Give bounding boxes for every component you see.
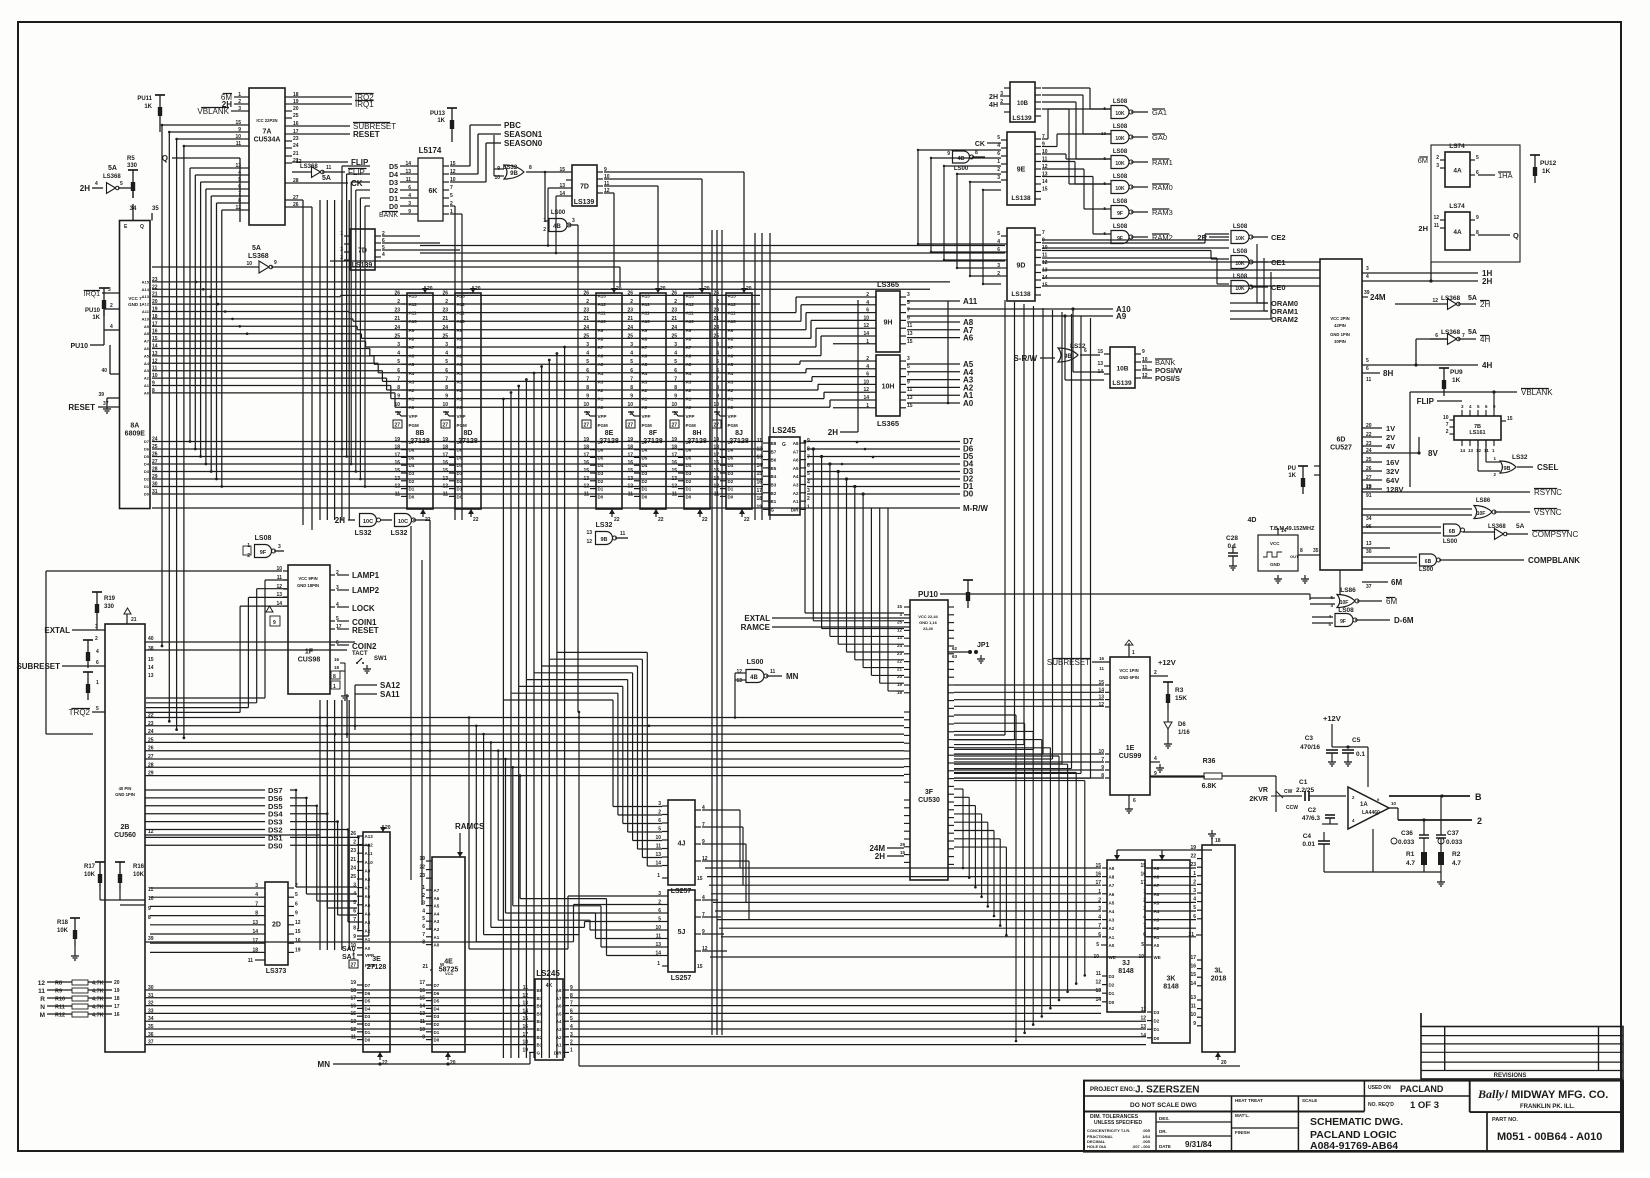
svg-text:7: 7 <box>450 185 453 191</box>
svg-text:9/31/84: 9/31/84 <box>1185 1140 1212 1149</box>
svg-text:D4: D4 <box>389 172 398 179</box>
svg-text:B7: B7 <box>771 449 777 454</box>
svg-text:C2: C2 <box>1308 807 1317 814</box>
svg-text:D1: D1 <box>144 484 150 489</box>
svg-text:LS32: LS32 <box>391 530 408 537</box>
svg-text:A3: A3 <box>686 379 692 384</box>
svg-text:16: 16 <box>419 988 425 994</box>
svg-text:A9: A9 <box>409 328 415 333</box>
svg-text:A9: A9 <box>457 328 463 333</box>
svg-text:16: 16 <box>713 460 719 466</box>
svg-text:2: 2 <box>445 299 448 305</box>
svg-text:RESET: RESET <box>353 130 380 139</box>
svg-text:A7: A7 <box>1109 883 1115 888</box>
svg-text:11: 11 <box>620 531 626 537</box>
svg-text:11: 11 <box>757 438 763 444</box>
svg-text:Bally: Bally <box>1477 1087 1505 1101</box>
svg-text:2: 2 <box>807 496 810 502</box>
svg-text:6: 6 <box>866 372 869 378</box>
svg-text:VSYNC: VSYNC <box>1534 508 1562 517</box>
svg-text:LS08: LS08 <box>1113 99 1128 105</box>
svg-text:9: 9 <box>1476 215 1479 221</box>
svg-text:12: 12 <box>1476 448 1482 453</box>
svg-text:D2: D2 <box>598 479 604 484</box>
svg-text:1K: 1K <box>92 315 100 321</box>
svg-text:A3: A3 <box>1109 918 1115 923</box>
svg-text:A1: A1 <box>457 397 463 402</box>
svg-text:2018: 2018 <box>1211 976 1227 983</box>
svg-text:12: 12 <box>863 387 869 393</box>
svg-text:D3: D3 <box>598 471 604 476</box>
svg-text:4A: 4A <box>1453 168 1462 175</box>
svg-text:DS0: DS0 <box>268 841 283 850</box>
svg-text:2: 2 <box>1193 879 1196 885</box>
svg-text:SUBRESET: SUBRESET <box>1047 658 1090 667</box>
svg-text:LS74: LS74 <box>1449 143 1465 150</box>
svg-text:VBLANK: VBLANK <box>197 107 229 116</box>
svg-text:D1: D1 <box>728 487 734 492</box>
svg-text:12: 12 <box>442 484 448 490</box>
svg-text:6: 6 <box>1084 348 1087 354</box>
svg-text:M-R/W: M-R/W <box>963 504 988 513</box>
svg-text:13: 13 <box>350 1019 356 1025</box>
svg-text:5A: 5A <box>322 175 331 182</box>
svg-text:2H: 2H <box>1480 300 1490 309</box>
svg-text:19: 19 <box>114 988 120 994</box>
svg-text:A12: A12 <box>728 302 737 307</box>
svg-text:14: 14 <box>1140 1033 1146 1039</box>
svg-text:3: 3 <box>674 342 677 348</box>
svg-text:POSI/S: POSI/S <box>1155 374 1180 383</box>
svg-text:D4: D4 <box>365 1006 371 1011</box>
svg-text:18: 18 <box>522 1040 528 1046</box>
svg-text:D0: D0 <box>434 1038 440 1043</box>
svg-text:9H: 9H <box>884 320 893 327</box>
svg-text:11: 11 <box>1096 971 1102 977</box>
svg-text:7B: 7B <box>1474 424 1481 430</box>
svg-text:CU530: CU530 <box>918 797 940 804</box>
svg-text:PBC: PBC <box>504 121 521 130</box>
svg-text:5: 5 <box>445 359 448 365</box>
svg-text:13: 13 <box>1366 541 1372 547</box>
svg-text:TACT: TACT <box>352 651 368 657</box>
svg-text:A9: A9 <box>144 324 150 329</box>
svg-text:PGM: PGM <box>598 423 609 428</box>
svg-text:A0: A0 <box>642 405 648 410</box>
svg-text:D3: D3 <box>642 471 648 476</box>
svg-text:3: 3 <box>353 883 356 889</box>
svg-text:9: 9 <box>586 394 589 400</box>
svg-text:13: 13 <box>1190 995 1196 1001</box>
svg-text:19: 19 <box>756 504 762 510</box>
svg-text:LS365: LS365 <box>877 419 899 428</box>
svg-text:D6: D6 <box>434 991 440 996</box>
svg-text:GND 6PIN: GND 6PIN <box>1119 675 1139 680</box>
svg-text:D3: D3 <box>144 469 150 474</box>
svg-text:A7: A7 <box>686 345 692 350</box>
svg-text:LS00: LS00 <box>747 659 764 666</box>
svg-text:A1: A1 <box>1109 935 1115 940</box>
svg-text:D3: D3 <box>457 471 463 476</box>
svg-text:14: 14 <box>863 331 869 337</box>
svg-text:D3: D3 <box>365 1014 371 1019</box>
svg-text:10F: 10F <box>1340 600 1349 606</box>
svg-text:/ MIDWAY MFG. CO.: / MIDWAY MFG. CO. <box>1505 1089 1608 1101</box>
svg-text:3: 3 <box>340 247 343 253</box>
svg-text:A7: A7 <box>457 345 463 350</box>
svg-text:14: 14 <box>756 463 762 469</box>
svg-text:VCC 22,44: VCC 22,44 <box>918 614 938 619</box>
svg-text:24: 24 <box>1366 448 1372 454</box>
svg-text:9: 9 <box>295 911 298 917</box>
svg-text:11: 11 <box>1484 448 1489 453</box>
svg-text:12: 12 <box>1140 1016 1146 1022</box>
svg-text:C28: C28 <box>1226 535 1238 542</box>
svg-text:13: 13 <box>276 592 282 598</box>
svg-text:1: 1 <box>543 218 546 224</box>
svg-text:B3: B3 <box>771 483 777 488</box>
svg-text:D0: D0 <box>728 494 734 499</box>
svg-text:A0: A0 <box>598 405 604 410</box>
svg-text:A12: A12 <box>457 302 466 307</box>
svg-text:21: 21 <box>713 316 719 322</box>
svg-text:D6: D6 <box>1178 722 1186 728</box>
svg-text:PGM: PGM <box>365 963 376 968</box>
svg-text:CUS99: CUS99 <box>1119 753 1142 760</box>
svg-text:RESET: RESET <box>68 403 95 412</box>
svg-text:LS257: LS257 <box>671 975 692 982</box>
svg-text:A7: A7 <box>556 996 562 1001</box>
svg-text:CE0: CE0 <box>1271 283 1286 292</box>
svg-text:2: 2 <box>1436 155 1439 161</box>
svg-text:26: 26 <box>442 290 448 296</box>
svg-text:5: 5 <box>586 359 589 365</box>
svg-text:D6: D6 <box>728 448 734 453</box>
svg-text:8: 8 <box>148 915 151 921</box>
svg-text:12: 12 <box>1432 298 1438 304</box>
svg-text:14: 14 <box>1281 528 1287 534</box>
svg-text:24: 24 <box>627 325 633 331</box>
svg-text:CONCENTRICITY T.I.R.: CONCENTRICITY T.I.R. <box>1087 1128 1130 1133</box>
svg-text:A1: A1 <box>409 397 415 402</box>
svg-text:Q: Q <box>162 154 168 163</box>
svg-text:26: 26 <box>627 290 633 296</box>
svg-text:4: 4 <box>1366 274 1369 280</box>
svg-text:RAMCS: RAMCS <box>455 822 485 831</box>
svg-text:14: 14 <box>863 395 869 401</box>
svg-text:A6: A6 <box>793 458 799 463</box>
svg-text:CK: CK <box>975 141 985 148</box>
svg-text:4: 4 <box>997 239 1000 245</box>
svg-text:11: 11 <box>907 323 913 329</box>
svg-text:A0: A0 <box>686 405 692 410</box>
svg-text:2: 2 <box>866 292 869 298</box>
svg-text:5: 5 <box>120 181 123 187</box>
svg-text:23: 23 <box>627 308 633 314</box>
svg-text:11: 11 <box>628 491 634 497</box>
svg-text:470/16: 470/16 <box>1300 744 1320 751</box>
svg-text:20: 20 <box>114 980 120 986</box>
svg-text:VCC: VCC <box>1270 541 1280 546</box>
svg-text:1/16: 1/16 <box>1178 730 1190 736</box>
svg-text:19: 19 <box>295 947 301 953</box>
svg-text:4: 4 <box>95 181 98 187</box>
svg-text:A12: A12 <box>642 302 651 307</box>
svg-text:12: 12 <box>38 980 46 987</box>
svg-text:5A: 5A <box>252 245 261 252</box>
svg-text:17: 17 <box>756 488 762 494</box>
svg-text:13: 13 <box>1140 1024 1146 1030</box>
svg-text:2V: 2V <box>1386 433 1395 442</box>
svg-text:6: 6 <box>997 247 1000 253</box>
svg-text:A14: A14 <box>142 287 150 292</box>
svg-text:8: 8 <box>422 940 425 946</box>
svg-text:9: 9 <box>1193 1021 1196 1027</box>
svg-text:37: 37 <box>103 401 109 407</box>
svg-text:COIN2: COIN2 <box>352 642 377 651</box>
svg-text:MN: MN <box>318 1060 331 1069</box>
svg-text:A5: A5 <box>1109 900 1115 905</box>
svg-text:20: 20 <box>450 1060 456 1066</box>
svg-text:330: 330 <box>127 163 138 169</box>
svg-text:DO NOT SCALE DWG: DO NOT SCALE DWG <box>1130 1102 1197 1109</box>
svg-text:B8: B8 <box>537 988 543 993</box>
svg-text:1: 1 <box>1132 650 1135 656</box>
svg-text:2: 2 <box>630 299 633 305</box>
svg-text:24: 24 <box>671 325 677 331</box>
svg-text:16: 16 <box>756 480 762 486</box>
svg-text:3: 3 <box>997 263 1000 269</box>
svg-text:8E: 8E <box>605 430 614 437</box>
svg-text:15: 15 <box>295 929 301 935</box>
svg-text:18: 18 <box>713 445 719 451</box>
svg-text:15: 15 <box>671 468 677 474</box>
svg-text:D1: D1 <box>1154 1027 1160 1032</box>
svg-text:6: 6 <box>1133 798 1136 804</box>
svg-text:21: 21 <box>583 316 589 322</box>
svg-text:4B: 4B <box>750 675 758 681</box>
svg-text:8J: 8J <box>735 430 743 437</box>
svg-text:A4: A4 <box>728 371 734 376</box>
svg-text:D2: D2 <box>728 479 734 484</box>
svg-text:3: 3 <box>630 342 633 348</box>
svg-text:7: 7 <box>674 376 677 382</box>
svg-text:6809E: 6809E <box>125 431 146 438</box>
svg-text:14: 14 <box>148 665 154 671</box>
svg-text:A8: A8 <box>598 336 604 341</box>
svg-text:SUBRESET: SUBRESET <box>16 662 60 671</box>
svg-text:13: 13 <box>756 455 762 461</box>
svg-text:8148: 8148 <box>1163 984 1179 991</box>
svg-text:D0: D0 <box>686 494 692 499</box>
svg-text:VBLANK: VBLANK <box>1521 388 1553 397</box>
svg-text:10: 10 <box>276 566 282 572</box>
svg-text:8: 8 <box>529 165 532 171</box>
svg-text:18: 18 <box>627 445 633 451</box>
svg-text:6: 6 <box>630 368 633 374</box>
svg-text:A2: A2 <box>642 388 648 393</box>
svg-text:10: 10 <box>1190 1012 1196 1018</box>
svg-text:A8: A8 <box>409 336 415 341</box>
svg-text:12: 12 <box>586 539 592 545</box>
svg-text:4: 4 <box>716 351 719 357</box>
svg-text:LAMP2: LAMP2 <box>352 586 380 595</box>
svg-text:M051 - 00B64 - A010: M051 - 00B64 - A010 <box>1497 1131 1602 1143</box>
svg-text:1F: 1F <box>305 649 314 656</box>
svg-text:PGM: PGM <box>686 423 697 428</box>
svg-text:10: 10 <box>442 402 448 408</box>
svg-text:4: 4 <box>674 351 677 357</box>
svg-text:27: 27 <box>672 423 678 429</box>
svg-text:GND 1PIN: GND 1PIN <box>115 792 135 797</box>
svg-text:5J: 5J <box>678 929 686 936</box>
svg-text:D7: D7 <box>409 440 415 445</box>
svg-text:M: M <box>40 1012 45 1019</box>
svg-text:21: 21 <box>131 617 137 623</box>
svg-text:40 PIN: 40 PIN <box>119 786 132 791</box>
svg-text:1 OF 3: 1 OF 3 <box>1410 1100 1439 1111</box>
svg-text:21: 21 <box>671 316 677 322</box>
svg-text:A7: A7 <box>434 888 440 893</box>
svg-text:10F: 10F <box>1477 511 1486 517</box>
svg-text:3: 3 <box>907 356 910 362</box>
svg-text:23: 23 <box>419 873 425 879</box>
svg-text:25: 25 <box>293 113 299 119</box>
svg-text:LS139: LS139 <box>1012 115 1032 122</box>
svg-text:11: 11 <box>1434 223 1440 229</box>
svg-text:A0: A0 <box>1109 943 1115 948</box>
svg-text:5: 5 <box>907 364 910 370</box>
svg-text:9: 9 <box>716 394 719 400</box>
svg-text:8V: 8V <box>1428 449 1438 458</box>
svg-text:13: 13 <box>736 678 742 684</box>
svg-text:22: 22 <box>1366 432 1372 438</box>
svg-text:8: 8 <box>630 385 633 391</box>
svg-text:39: 39 <box>148 936 154 942</box>
svg-text:+12V: +12V <box>1323 714 1341 723</box>
svg-text:LS08: LS08 <box>1113 149 1128 155</box>
svg-text:D5: D5 <box>457 455 463 460</box>
svg-text:A8: A8 <box>642 336 648 341</box>
svg-text:A4: A4 <box>793 474 799 479</box>
svg-text:23: 23 <box>350 848 356 854</box>
svg-text:9: 9 <box>907 379 910 385</box>
svg-text:6D: 6D <box>1337 437 1346 444</box>
svg-text:A11: A11 <box>728 311 737 316</box>
svg-text:WE: WE <box>1154 955 1161 960</box>
svg-text:D0: D0 <box>598 494 604 499</box>
svg-text:5: 5 <box>96 706 99 712</box>
svg-text:2H: 2H <box>335 516 345 525</box>
svg-text:9: 9 <box>445 394 448 400</box>
svg-text:8B: 8B <box>416 430 425 437</box>
svg-text:A6: A6 <box>409 354 415 359</box>
svg-text:3: 3 <box>716 342 719 348</box>
svg-text:12: 12 <box>713 484 719 490</box>
svg-text:D1: D1 <box>457 487 463 492</box>
svg-text:D5: D5 <box>642 455 648 460</box>
svg-text:A3: A3 <box>728 379 734 384</box>
svg-text:24: 24 <box>293 143 299 149</box>
svg-text:3: 3 <box>997 175 1000 181</box>
svg-text:VCC 1PIN: VCC 1PIN <box>1119 668 1138 673</box>
svg-text:25: 25 <box>1366 457 1372 463</box>
svg-text:6: 6 <box>295 901 298 907</box>
svg-text:B7: B7 <box>537 996 543 1001</box>
svg-text:25: 25 <box>442 333 448 339</box>
svg-text:CW: CW <box>1284 789 1293 795</box>
svg-text:REVISIONS: REVISIONS <box>1494 1073 1527 1079</box>
svg-text:10K: 10K <box>84 872 96 878</box>
svg-text:D2: D2 <box>409 479 415 484</box>
svg-text:A0: A0 <box>1154 943 1160 948</box>
svg-text:128V: 128V <box>1386 485 1404 494</box>
svg-text:11: 11 <box>672 491 678 497</box>
svg-text:D1: D1 <box>686 487 692 492</box>
svg-text:12: 12 <box>1433 215 1439 221</box>
svg-text:B1: B1 <box>771 499 777 504</box>
svg-text:9B: 9B <box>510 171 518 177</box>
svg-text:A4: A4 <box>598 371 604 376</box>
svg-text:17: 17 <box>522 1032 528 1038</box>
svg-text:14: 14 <box>1042 179 1048 185</box>
svg-text:RESET: RESET <box>352 626 379 635</box>
svg-text:PU11: PU11 <box>137 96 152 102</box>
svg-text:T.B.M 49.152MHZ: T.B.M 49.152MHZ <box>1270 526 1315 532</box>
svg-text:D4: D4 <box>457 463 463 468</box>
svg-text:D3: D3 <box>686 471 692 476</box>
svg-text:12: 12 <box>1366 485 1372 491</box>
svg-text:11: 11 <box>584 491 590 497</box>
svg-text:2: 2 <box>110 303 113 309</box>
svg-text:16: 16 <box>1190 964 1196 970</box>
svg-text:13: 13 <box>442 476 448 482</box>
svg-text:D5: D5 <box>598 455 604 460</box>
svg-text:LS08: LS08 <box>1233 224 1248 230</box>
svg-text:B2: B2 <box>771 491 777 496</box>
svg-text:A9: A9 <box>1109 866 1115 871</box>
svg-text:4: 4 <box>397 351 400 357</box>
svg-text:14: 14 <box>1190 981 1196 987</box>
svg-text:2H: 2H <box>1482 277 1492 286</box>
svg-text:10K: 10K <box>1115 111 1125 117</box>
svg-text:9: 9 <box>947 151 950 157</box>
svg-text:A2: A2 <box>434 927 440 932</box>
svg-text:16: 16 <box>627 460 633 466</box>
svg-text:1K: 1K <box>1288 473 1296 479</box>
svg-text:42PIN: 42PIN <box>1334 323 1346 328</box>
svg-text:10C: 10C <box>398 519 408 525</box>
svg-text:D0: D0 <box>457 494 463 499</box>
svg-text:A3: A3 <box>457 379 463 384</box>
svg-text:SW1: SW1 <box>374 656 388 662</box>
svg-text:A5: A5 <box>365 903 371 908</box>
svg-text:3: 3 <box>1436 163 1439 169</box>
svg-text:OUT: OUT <box>1290 554 1299 559</box>
svg-text:A2: A2 <box>598 388 604 393</box>
svg-text:DES.: DES. <box>1159 1116 1170 1121</box>
svg-text:B6: B6 <box>771 458 777 463</box>
svg-text:A6: A6 <box>1109 892 1115 897</box>
svg-text:1: 1 <box>570 1047 573 1053</box>
svg-text:9: 9 <box>807 438 810 444</box>
svg-text:25: 25 <box>713 333 719 339</box>
svg-text:17: 17 <box>442 452 448 458</box>
svg-text:25: 25 <box>671 333 677 339</box>
svg-text:1A: 1A <box>1360 802 1368 808</box>
svg-text:19: 19 <box>419 856 425 862</box>
svg-text:B4: B4 <box>537 1019 543 1024</box>
